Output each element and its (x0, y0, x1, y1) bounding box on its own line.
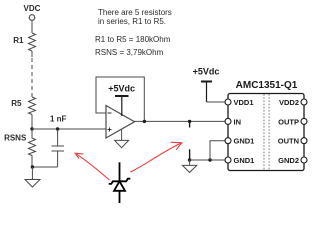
wire node to op-amp + input (32, 128, 106, 130)
svg-text:R1: R1 (13, 36, 24, 45)
pin IN (225, 118, 231, 124)
ground (sense) (25, 167, 40, 187)
wire capacitor bottom to RSNS bottom (32, 166, 57, 168)
op-amp plus pin (108, 128, 112, 132)
VDC source terminal circle (29, 15, 35, 21)
pin OUTP (301, 118, 307, 124)
IC +5Vdc supply bar (201, 82, 212, 103)
svg-text:VDC: VDC (24, 4, 41, 13)
wire op-amp output to IN pin (135, 120, 226, 122)
pin VDD1 (225, 99, 231, 105)
node junction feedback/output (143, 120, 146, 123)
wire R5 to node (31, 115, 33, 130)
svg-text:+5Vdc: +5Vdc (193, 67, 220, 77)
op-amp U1 (106, 106, 135, 139)
svg-text:in series, R1 to R5.: in series, R1 to R5. (98, 17, 166, 26)
wire stub below IN line (TVS placement) (189, 121, 191, 127)
svg-text:R1 to R5 = 180kOhm: R1 to R5 = 180kOhm (95, 35, 171, 44)
node junction TVS stub top (188, 120, 191, 123)
svg-text:R5: R5 (11, 99, 22, 108)
pin GND2 (301, 157, 307, 163)
node junction R5/RSNS (30, 127, 33, 130)
svg-text:GND1: GND1 (234, 137, 255, 146)
wire VDC to R1 (31, 20, 33, 33)
wire to R5 (31, 93, 33, 97)
svg-text:There are 5 resistors: There are 5 resistors (98, 8, 172, 17)
svg-text:RSNS: RSNS (4, 134, 27, 143)
wire GND1 upper to lower (210, 141, 225, 160)
resistor RSNS (29, 129, 36, 167)
svg-text:AMC1351-Q1: AMC1351-Q1 (236, 80, 298, 91)
svg-text:GND2: GND2 (278, 156, 299, 165)
svg-text:IN: IN (234, 117, 242, 126)
capacitor C1 (52, 129, 65, 167)
node junction GND1 wires (208, 158, 211, 161)
svg-text:RSNS = 3,79kOhm: RSNS = 3,79kOhm (95, 48, 164, 57)
svg-text:GND1: GND1 (234, 156, 255, 165)
wire +5Vdc to VDD1 (207, 101, 226, 103)
annotation arrow to TVS stub (130, 142, 181, 172)
annotation text block (95, 8, 172, 57)
wire stub bottom to GND1 pin (190, 159, 225, 161)
pin GND1 (upper) (225, 138, 231, 144)
wire dashed series continuation (31, 58, 33, 93)
svg-text:VDD2: VDD2 (279, 98, 299, 107)
resistor R5 (29, 97, 36, 115)
op-amp ground stem (121, 129, 123, 140)
isolation barrier (263, 94, 265, 170)
pin GND1 (lower) (225, 157, 231, 163)
TVS diode D1 (suggested) (109, 162, 131, 203)
svg-text:OUTN: OUTN (278, 137, 299, 146)
wire stub above ground (TVS placement) (189, 149, 191, 160)
svg-text:VDD1: VDD1 (234, 98, 254, 107)
wire feedback loop (96, 77, 144, 121)
ground (GND1) (182, 160, 196, 172)
wire R1 lower (31, 51, 33, 57)
pin VDD2 (301, 99, 307, 105)
op-amp +5Vdc supply bar (115, 96, 129, 116)
svg-text:+5Vdc: +5Vdc (108, 84, 135, 94)
ground (op-amp) (115, 140, 129, 147)
node junction capacitor tap (56, 127, 59, 130)
node junction TVS stub bottom (188, 158, 191, 161)
resistor R1 (29, 33, 36, 51)
svg-text:1 nF: 1 nF (50, 115, 67, 124)
annotation arrow to capacitor (75, 153, 109, 180)
svg-text:OUTP: OUTP (278, 117, 299, 126)
pin OUTN (301, 138, 307, 144)
op-amp minus pin (108, 112, 112, 114)
node junction RSNS/cap/ground (31, 165, 34, 168)
